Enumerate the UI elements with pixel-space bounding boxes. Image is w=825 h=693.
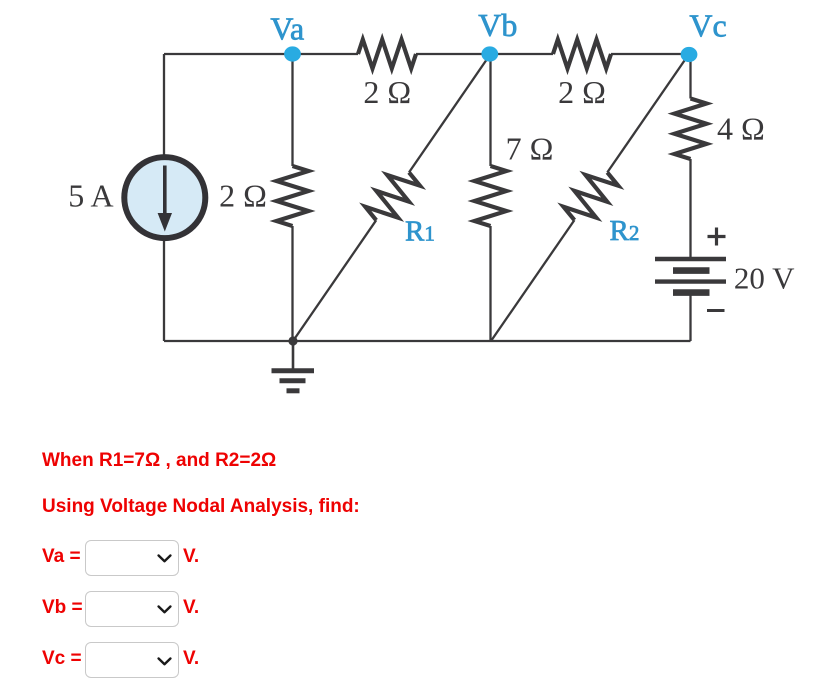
- svg-text:2 Ω: 2 Ω: [219, 178, 267, 214]
- current source I1 5A circle: [124, 157, 205, 238]
- svg-text:2 Ω: 2 Ω: [363, 74, 411, 110]
- wire Vc column mid (4ohm to battery): [689, 159, 691, 257]
- wire left branch upper (to current source): [163, 54, 165, 157]
- wire Va column lower: [291, 226, 293, 341]
- svg-text:Vc: Vc: [689, 8, 726, 44]
- resistor R2 diagonal zigzag: [564, 172, 619, 220]
- dropdown select Vc: [85, 642, 179, 678]
- wire diagonal R1 lower stub: [293, 220, 376, 341]
- battery plate short thick bottom (-): [673, 289, 710, 296]
- svg-text:4 Ω: 4 Ω: [717, 111, 765, 147]
- wire top between second 2ohm and Vc: [611, 53, 691, 55]
- unit V. row 2: [183, 598, 199, 617]
- resistor R1 diagonal zigzag: [365, 172, 420, 220]
- chevron Va: [157, 554, 172, 563]
- battery plate long thin: [655, 279, 726, 283]
- wire Vb column lower: [489, 226, 491, 341]
- question line 1: [42, 451, 276, 470]
- wire top between R(2ohm) and Vb: [416, 53, 553, 55]
- node Vb dot: [481, 46, 498, 61]
- unit V. row 1: [183, 547, 199, 566]
- battery V1 plate long top (+): [655, 257, 726, 261]
- svg-text:2 Ω: 2 Ω: [558, 74, 606, 110]
- wire bottom rail: [164, 340, 691, 342]
- node Vc dot: [681, 47, 698, 62]
- svg-text:Va: Va: [270, 11, 304, 47]
- row Vb label: [42, 598, 83, 617]
- unit V. row 3: [183, 649, 199, 668]
- ground bar 3: [287, 388, 300, 393]
- plus sign of battery: [708, 235, 726, 238]
- svg-text:20 V: 20 V: [734, 261, 795, 296]
- svg-text:Vb: Vb: [478, 7, 517, 43]
- wire diagonal R1 upper stub: [409, 54, 491, 172]
- svg-text:R1: R1: [405, 216, 435, 248]
- current source arrow: [163, 166, 167, 216]
- wire Vc column upper: [689, 54, 691, 99]
- wire Va column upper: [291, 54, 293, 166]
- row Va label: [42, 547, 81, 566]
- wire Vc column lower (battery to bottom): [689, 294, 691, 341]
- chevron Vb: [157, 605, 172, 614]
- ground junction dot: [288, 336, 297, 345]
- resistor 2ohm horizontal Va-Vb: [358, 40, 416, 69]
- ground bar 2: [280, 378, 306, 383]
- resistor 4ohm vertical below Vc: [675, 99, 707, 160]
- resistor 2ohm vertical below Va: [277, 166, 309, 226]
- wire top left horizontal Va segment: [164, 53, 358, 55]
- ground bar 1: [272, 368, 315, 373]
- dropdown select Vb: [85, 591, 179, 627]
- question line 2: [42, 497, 360, 516]
- wire diagonal R2 upper stub: [607, 54, 689, 172]
- wire left branch lower (current source to bottom): [163, 240, 165, 341]
- chevron Vc: [157, 657, 172, 666]
- node Va dot: [284, 46, 301, 61]
- resistor 7ohm vertical below Vb: [475, 166, 507, 226]
- wire diagonal R2 lower stub: [491, 220, 574, 341]
- ground stem: [292, 341, 295, 369]
- svg-text:5 A: 5 A: [68, 178, 113, 214]
- resistor 2ohm horizontal Vb-Vc: [553, 40, 611, 69]
- wire Vb column upper: [489, 54, 491, 166]
- svg-text:R2: R2: [610, 215, 640, 247]
- battery plate short thick: [673, 267, 710, 274]
- row Vc label: [42, 649, 82, 668]
- minus sign of battery: [707, 309, 725, 312]
- svg-text:7 Ω: 7 Ω: [506, 131, 554, 167]
- dropdown select Va: [85, 540, 179, 576]
